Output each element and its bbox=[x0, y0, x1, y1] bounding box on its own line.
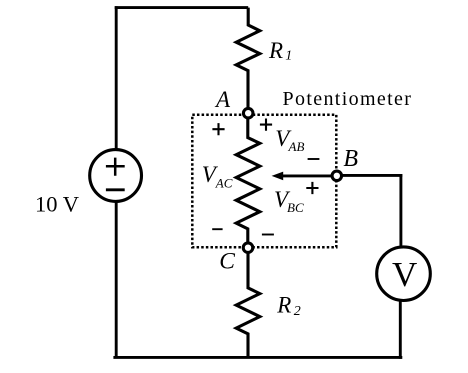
svg-text:C: C bbox=[219, 249, 235, 275]
svg-text:A: A bbox=[214, 87, 231, 112]
node B bbox=[332, 171, 342, 181]
wiper arrowhead bbox=[272, 172, 284, 181]
plus sign top-right of wire (V_AB +) bbox=[260, 119, 272, 131]
svg-text:R: R bbox=[276, 293, 291, 318]
minus sign bottom-left (V_AC -) bbox=[212, 228, 222, 230]
potentiometer resistive element (A to C zigzag) bbox=[236, 113, 260, 248]
wire: node B to right corner bbox=[336, 174, 402, 177]
svg-text:BC: BC bbox=[287, 200, 304, 215]
voltage source minus sign bbox=[106, 188, 125, 191]
svg-text:1: 1 bbox=[285, 49, 292, 64]
wire: left vertical bottom (source to bottom wire) bbox=[115, 202, 118, 358]
wire: top horizontal bbox=[115, 6, 249, 9]
node C bbox=[243, 243, 253, 253]
potentiometer dotted box bbox=[192, 115, 336, 248]
voltage source circle bbox=[90, 150, 142, 202]
wire: left vertical top (source to top wire) bbox=[115, 6, 118, 150]
resistor R1 bbox=[236, 8, 260, 109]
wire: right vertical top (corner to voltmeter) bbox=[399, 174, 402, 247]
svg-text:10 V: 10 V bbox=[35, 191, 79, 216]
wire: right vertical bottom (voltmeter to bottom wire) bbox=[399, 300, 402, 359]
svg-text:AB: AB bbox=[288, 139, 305, 154]
svg-text:V: V bbox=[392, 255, 417, 294]
svg-text:B: B bbox=[343, 146, 358, 172]
svg-text:R: R bbox=[268, 38, 283, 63]
svg-text:AC: AC bbox=[215, 175, 233, 190]
voltmeter circle bbox=[377, 247, 431, 301]
node A bbox=[243, 108, 253, 118]
wire: bottom horizontal bbox=[113, 356, 402, 359]
resistor R2 bbox=[236, 248, 260, 358]
svg-text:2: 2 bbox=[294, 304, 301, 319]
minus sign under V_AB bbox=[308, 158, 320, 160]
voltage source plus sign bbox=[106, 158, 125, 176]
plus sign top-left (V_AC +) bbox=[212, 123, 224, 135]
svg-text:Potentiometer: Potentiometer bbox=[283, 88, 413, 110]
wiper arrow wire from node B bbox=[282, 174, 337, 177]
minus sign bottom-right (V_BC -) bbox=[262, 234, 274, 236]
plus sign near B (V_BC +) bbox=[306, 182, 318, 194]
